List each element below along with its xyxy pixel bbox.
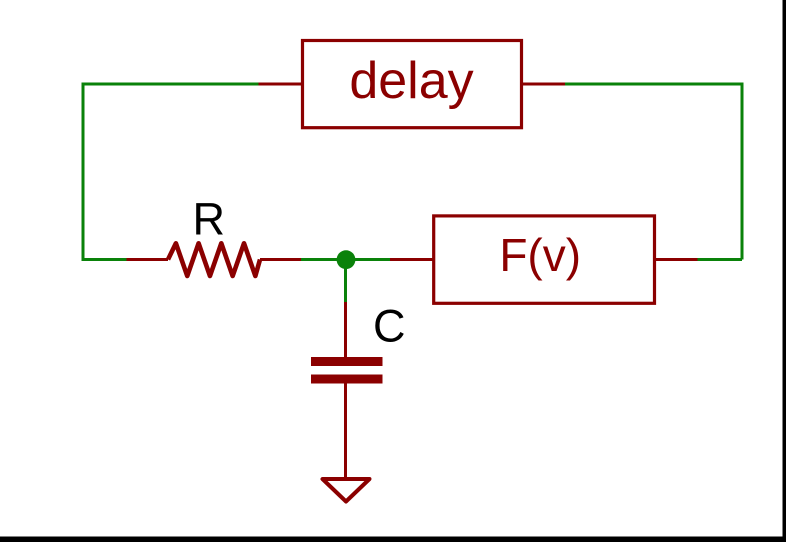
wire capacitor bottom lead (red) <box>344 383 347 478</box>
capacitor C bottom plate <box>311 375 383 384</box>
wire top-right horizontal (green net) <box>565 83 744 86</box>
svg-text:R: R <box>193 194 226 245</box>
wire F(v) left lead (red stub) <box>390 258 434 261</box>
black bar bottom edge <box>0 537 786 542</box>
wire resistor left lead (red stub) <box>127 258 169 261</box>
ground symbol <box>323 479 370 502</box>
svg-text:delay: delay <box>349 52 473 110</box>
wire F(v) right lead (red stub) <box>655 258 698 261</box>
wire delay right lead (red stub) <box>522 83 566 86</box>
svg-text:F(v): F(v) <box>499 229 581 281</box>
wire capacitor top lead (red) <box>344 302 347 358</box>
wire left vertical (green net) <box>82 84 85 260</box>
capacitor C top plate <box>311 357 383 366</box>
wire right vertical (green net) <box>741 83 744 260</box>
resistor R zigzag <box>168 243 260 276</box>
wire delay left lead (red stub) <box>259 83 303 86</box>
black bar right edge <box>783 0 786 542</box>
wire resistor to node (green net) <box>301 258 346 261</box>
wire mid-right horizontal (green net) <box>698 258 743 261</box>
wire top-left horizontal (green net) <box>82 83 259 86</box>
wire resistor right lead (red stub) <box>260 258 301 261</box>
svg-text:C: C <box>373 301 406 352</box>
delay block <box>303 41 522 128</box>
node junction dot <box>337 250 356 269</box>
wire node to F(v) (green net) <box>346 258 391 261</box>
wire node down (green net) <box>344 260 347 303</box>
F(v) block <box>434 216 655 303</box>
wire mid-left horizontal (green net) <box>82 258 127 261</box>
